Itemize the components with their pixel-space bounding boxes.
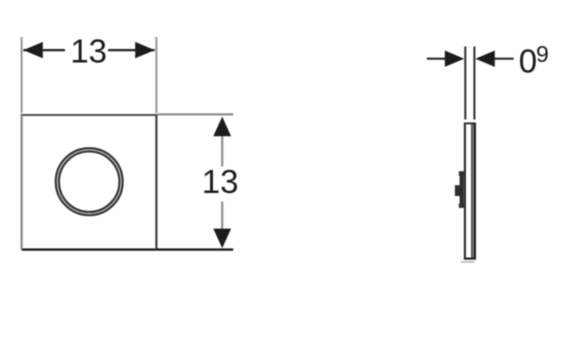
right dimension: dimension line upper segment <box>221 135 223 166</box>
side view: strip bottom cap <box>459 204 464 208</box>
side view: left arrow tail line <box>427 58 446 60</box>
side view: shadow line under plate <box>461 261 475 263</box>
side view: thickness dimension left extension line <box>464 47 466 120</box>
side view: plate profile outline <box>464 123 476 258</box>
side view: mounting strip on back of plate <box>460 171 464 208</box>
side view: right arrow tail line <box>494 58 513 60</box>
right dimension: bottom extension line <box>156 248 233 250</box>
side view: thickness dimension right extension line <box>473 47 475 120</box>
svg-text:13: 13 <box>202 163 239 200</box>
top dimension: right arrowhead <box>135 42 155 58</box>
side view: actuator knob on back <box>455 185 460 196</box>
top dimension: right extension line <box>155 37 157 113</box>
top dimension: dimension line right segment <box>108 49 155 51</box>
right dimension: down arrowhead <box>213 229 231 249</box>
top dimension: left extension line <box>21 37 23 113</box>
right dimension: dimension line lower segment <box>221 202 223 229</box>
svg-text:13: 13 <box>70 32 107 69</box>
right dimension: up arrowhead <box>213 117 231 137</box>
front view: square plate outline <box>21 115 158 250</box>
top dimension: dimension line left segment <box>23 49 65 51</box>
side view: strip top cap <box>459 171 464 175</box>
top dimension: left arrowhead <box>23 42 43 58</box>
front view: actuator ring outer circle <box>56 148 123 215</box>
right dimension: top extension line <box>158 113 234 115</box>
side view: right arrowhead pointing left <box>475 51 494 67</box>
svg-text:9: 9 <box>536 41 549 67</box>
svg-text:0: 0 <box>519 42 537 79</box>
side view: left arrowhead pointing right <box>445 51 464 67</box>
front view: actuator ring inner circle <box>59 151 120 212</box>
